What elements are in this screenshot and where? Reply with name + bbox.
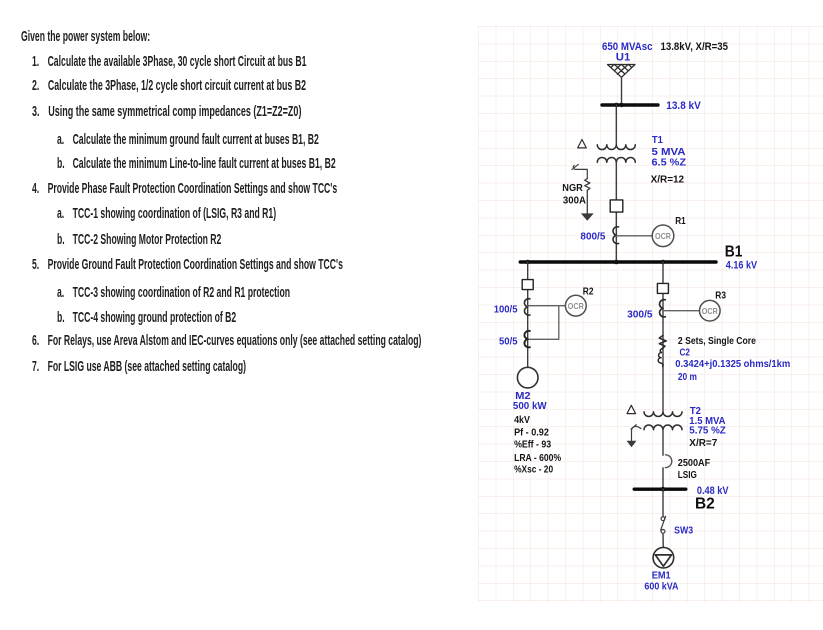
svg-text:R3: R3 — [715, 290, 726, 301]
motor M2 — [517, 367, 538, 388]
NGR wire to ground — [586, 190, 588, 213]
OCR relay R2 — [565, 295, 586, 316]
transformer T2 primary winding — [644, 412, 682, 417]
svg-text:B2: B2 — [695, 495, 715, 512]
T2 ground arrow — [627, 441, 637, 447]
svg-text:800/5: 800/5 — [580, 230, 605, 242]
svg-text:R1: R1 — [675, 216, 686, 227]
wire SW3 to EM1 — [662, 533, 664, 555]
svg-text:20 m: 20 m — [678, 371, 697, 383]
node dot B2 — [661, 487, 666, 492]
svg-text:C2: C2 — [680, 347, 691, 359]
cable C2 coil loops — [658, 348, 663, 366]
CT 50/5 — [524, 331, 529, 347]
wire T1 to breaker square — [615, 162, 617, 262]
svg-text:NGR: NGR — [562, 183, 583, 194]
right feeder wire upper — [662, 262, 664, 411]
node dot B1 right feeder — [661, 260, 666, 265]
wire LSIG to B2 — [662, 468, 664, 489]
node dot on 13.8kV bus (left) — [614, 103, 618, 107]
EM1 inner triangle — [655, 555, 671, 566]
OCR relay R1 — [652, 225, 674, 247]
svg-text:U1: U1 — [616, 52, 631, 64]
NGR ground arrow — [581, 213, 594, 220]
T2 link tick — [631, 425, 636, 429]
svg-text:500 kW: 500 kW — [513, 401, 547, 412]
svg-text:OCR: OCR — [702, 306, 718, 316]
node dot B1 trunk — [614, 260, 619, 265]
svg-text:T1: T1 — [652, 134, 663, 146]
delta symbol T2 — [627, 405, 636, 413]
NGR resistor zigzag — [585, 179, 590, 191]
svg-text:0.3424+j0.1325 ohms/1km: 0.3424+j0.1325 ohms/1km — [675, 358, 790, 370]
svg-text:4kV: 4kV — [514, 415, 530, 426]
cable C2 zigzag — [659, 335, 666, 348]
svg-text:%Eff - 93: %Eff - 93 — [514, 440, 551, 451]
svg-text:13.8 kV: 13.8 kV — [666, 100, 701, 112]
svg-text:5.75 %Z: 5.75 %Z — [689, 425, 726, 437]
transformer T1 primary winding — [597, 145, 635, 150]
svg-text:4.16 kV: 4.16 kV — [726, 259, 758, 271]
svg-text:2500AF: 2500AF — [678, 457, 711, 469]
node dot B1 left feeder — [525, 260, 530, 265]
transformer T2 secondary winding — [644, 425, 682, 430]
delta symbol T1 — [578, 140, 587, 148]
T1 neutral hook to NGR — [573, 165, 587, 178]
svg-text:Pf - 0.92: Pf - 0.92 — [514, 427, 549, 438]
svg-text:R2: R2 — [583, 287, 594, 298]
relay wire to OCR R2 — [528, 305, 566, 307]
wire B2 to SW3 — [662, 489, 664, 517]
NGR link tick — [572, 164, 579, 169]
bus B2 — [634, 488, 686, 491]
generator EM1 — [653, 547, 674, 568]
svg-text:2 Sets, Single Core: 2 Sets, Single Core — [678, 335, 756, 347]
svg-text:300A: 300A — [563, 196, 586, 207]
wire T2 to LSIG — [662, 430, 664, 455]
svg-text:SW3: SW3 — [674, 525, 693, 537]
node dot on 13.8kV bus (right) — [619, 103, 623, 107]
breaker square left feeder — [522, 280, 533, 290]
bus 13.8 kV — [602, 103, 658, 106]
relay wire to OCR R1 — [616, 235, 652, 237]
svg-text:B1: B1 — [725, 244, 743, 261]
svg-text:%Xsc - 20: %Xsc - 20 — [514, 465, 553, 476]
svg-text:600 kVA: 600 kVA — [644, 581, 678, 592]
left feeder wire to motor — [527, 262, 529, 367]
svg-text:100/5: 100/5 — [494, 304, 518, 316]
svg-text:LRA - 600%: LRA - 600% — [514, 453, 561, 464]
svg-text:OCR: OCR — [568, 301, 584, 311]
svg-text:X/R=7: X/R=7 — [689, 437, 717, 449]
CT 300/5 — [660, 300, 666, 317]
utility U1 — [608, 65, 636, 78]
svg-text:6.5 %Z: 6.5 %Z — [652, 156, 687, 168]
svg-text:50/5: 50/5 — [499, 336, 518, 348]
relay wire to OCR R3 — [663, 310, 699, 312]
wire utility to 13.8kV bus — [621, 77, 623, 104]
CT 800/5 — [613, 227, 619, 244]
breaker square below T1 — [610, 200, 623, 212]
transformer T1 secondary winding — [597, 157, 635, 162]
svg-text:13.8kV, X/R=35: 13.8kV, X/R=35 — [661, 41, 729, 53]
svg-text:EM1: EM1 — [652, 571, 671, 582]
svg-text:X/R=12: X/R=12 — [651, 174, 685, 186]
switch SW3 top contact — [661, 517, 665, 521]
svg-text:300/5: 300/5 — [627, 309, 653, 321]
wire bus to T1 primary — [615, 105, 617, 145]
switch SW3 blade — [661, 516, 666, 530]
breaker square right feeder — [657, 283, 668, 293]
T2 neutral hook — [632, 426, 642, 440]
LSIG breaker arc 2500AF — [665, 455, 671, 468]
relay loop R2 — [529, 306, 559, 340]
CT 100/5 — [524, 299, 529, 315]
switch SW3 bottom contact — [661, 530, 665, 534]
OCR relay R3 — [700, 300, 721, 321]
svg-text:OCR: OCR — [655, 231, 671, 241]
bus B1 — [520, 260, 716, 264]
left problem text — [21, 30, 150, 45]
svg-text:LSIG: LSIG — [678, 469, 697, 481]
